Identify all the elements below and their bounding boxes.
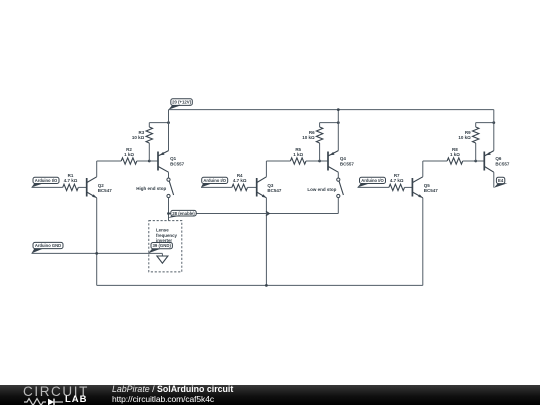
Q4 value label xyxy=(340,156,355,166)
wire R7 to Q5 base xyxy=(405,186,413,188)
node 28 enable junction xyxy=(167,212,170,215)
wire R9 to emitter line xyxy=(476,122,494,124)
svg-text:E4: E4 xyxy=(498,178,504,183)
node Arduino GND flag label xyxy=(32,242,64,253)
svg-text:Lense: Lense xyxy=(156,228,169,233)
wire Q3 emitter down to bottom rail xyxy=(265,198,267,286)
resistor R5 xyxy=(290,158,306,164)
R4 value label xyxy=(233,173,247,183)
R2 value label xyxy=(124,147,134,157)
wire Q2 collector up xyxy=(96,161,98,177)
switch SW1 High end stop xyxy=(167,178,174,198)
transistor Q4 (BC557 PNP) xyxy=(328,151,338,173)
transistor Q6 (BC557 PNP) xyxy=(484,151,494,173)
wire +12V top rail xyxy=(169,109,494,111)
wire node to Q1 base xyxy=(149,160,158,162)
svg-text:Arduino GND: Arduino GND xyxy=(35,243,61,248)
node Arduino I/O flag label stage 1 xyxy=(32,177,60,187)
node base junction stage 3 xyxy=(474,160,477,163)
svg-text:10 kΩ: 10 kΩ xyxy=(458,135,471,140)
svg-text:BC557: BC557 xyxy=(170,161,185,166)
node 39 (GND) flag label xyxy=(148,243,172,254)
svg-text:20 (+12V): 20 (+12V) xyxy=(172,100,192,105)
svg-text:1 kΩ: 1 kΩ xyxy=(124,152,134,157)
R7 value label xyxy=(390,173,404,183)
svg-text:BC547: BC547 xyxy=(424,188,439,193)
Q6 value label xyxy=(495,156,510,166)
R9 value label xyxy=(458,130,471,140)
wire Arduino I/O input stage 1 xyxy=(32,186,63,188)
svg-text:BC547: BC547 xyxy=(267,188,282,193)
svg-text:BC557: BC557 xyxy=(495,161,510,166)
svg-text:Arduino I/O: Arduino I/O xyxy=(203,178,226,183)
wire R1 to Q2 base xyxy=(78,186,86,188)
wire Arduino GND line xyxy=(32,252,163,254)
wire R6 top xyxy=(319,123,321,127)
wire R4 to Q3 base xyxy=(248,186,257,188)
R5 value label xyxy=(293,147,303,157)
wire Q1 collector to switch SW1 xyxy=(168,172,170,178)
wire Q2 emitter down to bottom rail xyxy=(96,198,98,286)
node E4 flag label xyxy=(494,177,507,188)
wire node up to R9 xyxy=(475,143,477,161)
transistor Q2 (BC547 NPN) xyxy=(87,177,97,198)
svg-text:Low end stop: Low end stop xyxy=(307,187,336,192)
wire R2 to node xyxy=(137,160,150,162)
wire Arduino I/O input stage 2 xyxy=(201,186,232,188)
wire collector to R5 xyxy=(266,160,290,162)
node rail junction stage 2 xyxy=(337,108,340,111)
wire R3 top xyxy=(148,123,150,127)
node emitter-resistor junction stage 1 xyxy=(167,121,170,124)
R3 value label xyxy=(132,130,145,140)
svg-text:Arduino I/O: Arduino I/O xyxy=(361,178,384,183)
node base junction stage 1 xyxy=(148,160,151,163)
svg-text:10 kΩ: 10 kΩ xyxy=(302,135,315,140)
Q1 value label xyxy=(170,156,185,166)
resistor R9 xyxy=(473,127,479,143)
transistor Q1 (BC557 PNP) xyxy=(158,151,169,173)
svg-text:28 (enable): 28 (enable) xyxy=(172,211,195,216)
svg-text:39 (GND): 39 (GND) xyxy=(153,243,172,248)
node base junction stage 2 xyxy=(318,160,321,163)
wire SW1 to enable node and inverter box xyxy=(168,198,170,221)
wire node to Q6 base xyxy=(476,160,485,162)
node Arduino I/O flag label stage 2 xyxy=(201,177,228,187)
node Arduino I/O flag label stage 3 xyxy=(358,177,386,187)
wire collector to R8 xyxy=(423,160,447,162)
wire R5 to node xyxy=(306,160,320,162)
wire R9 top xyxy=(475,123,477,127)
wire R8 to node xyxy=(463,160,476,162)
wire bottom emitter rail xyxy=(97,284,423,286)
wire 28 (enable) line xyxy=(169,213,339,215)
node Q3 emitter junction on bottom rail xyxy=(265,284,268,287)
node emitter-resistor junction stage 3 xyxy=(492,121,495,124)
wire Q6 collector to E4 xyxy=(493,172,495,187)
resistor R1 xyxy=(63,184,79,190)
ground xyxy=(157,253,168,263)
node 28 (enable) flag label xyxy=(168,210,196,218)
Q5 value label xyxy=(424,183,439,193)
wire Q5 emitter down to bottom rail xyxy=(422,198,424,286)
switch SW2 Low end stop xyxy=(337,178,344,198)
svg-text:BC547: BC547 xyxy=(98,188,113,193)
wire hop at enable/emitter crossing xyxy=(266,211,269,215)
transistor Q3 (BC547 NPN) xyxy=(257,177,267,198)
resistor R7 xyxy=(389,184,405,190)
wire R3 to emitter line xyxy=(149,122,168,124)
svg-text:4.7 kΩ: 4.7 kΩ xyxy=(64,178,78,183)
footer title text xyxy=(112,385,233,404)
wire Q6 emitter to +12V rail xyxy=(493,110,495,151)
wire Arduino I/O input stage 3 xyxy=(358,186,389,188)
wire node up to R3 xyxy=(148,143,150,161)
wire node to Q4 base xyxy=(320,160,328,162)
svg-text:10 kΩ: 10 kΩ xyxy=(132,135,145,140)
wire Q4 collector to switch SW2 xyxy=(337,172,339,178)
R1 value label xyxy=(64,173,78,183)
resistor R8 xyxy=(447,158,463,164)
node 20 (+12V) flag label xyxy=(169,99,193,110)
resistor R2 xyxy=(121,158,137,164)
R8 value label xyxy=(450,147,460,157)
wire Q5 collector up xyxy=(422,161,424,177)
wire SW2 down to enable line xyxy=(337,198,339,214)
CircuitLab logo xyxy=(23,386,113,397)
resistor R3 xyxy=(146,127,152,143)
R6 value label xyxy=(302,130,315,140)
transistor Q5 (BC547 NPN) xyxy=(412,177,422,198)
resistor R6 xyxy=(316,127,322,143)
Lense frequency inverter label xyxy=(156,228,178,244)
wire Q1 emitter to +12V rail xyxy=(168,110,170,151)
svg-text:BC557: BC557 xyxy=(340,161,355,166)
Lense frequency inverter box xyxy=(149,221,182,272)
footer bar xyxy=(0,385,540,405)
svg-text:1 kΩ: 1 kΩ xyxy=(293,152,303,157)
svg-text:High end stop: High end stop xyxy=(136,186,166,191)
Q2 value label xyxy=(98,183,113,193)
svg-text:1 kΩ: 1 kΩ xyxy=(450,152,460,157)
resistor R4 xyxy=(232,184,248,190)
node emitter-resistor junction stage 2 xyxy=(337,121,340,124)
node GND-emitter junction xyxy=(95,252,98,255)
wire collector to R2 xyxy=(97,160,122,162)
svg-text:4.7 kΩ: 4.7 kΩ xyxy=(233,178,247,183)
wire Q3 collector up xyxy=(265,161,267,177)
wire R6 to emitter line xyxy=(320,122,339,124)
svg-text:Arduino I/O: Arduino I/O xyxy=(35,178,58,183)
Q3 value label xyxy=(267,183,282,193)
svg-text:4.7 kΩ: 4.7 kΩ xyxy=(390,178,404,183)
wire node up to R6 xyxy=(319,143,321,161)
wire Q4 emitter to +12V rail xyxy=(337,110,339,151)
svg-text:frequency: frequency xyxy=(156,233,178,238)
